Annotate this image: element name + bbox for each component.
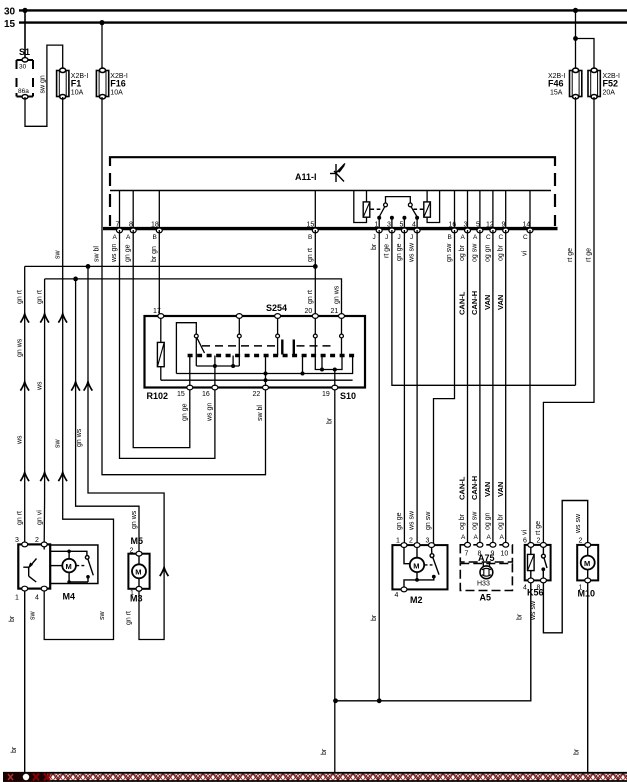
svg-text:30: 30	[4, 7, 16, 18]
wire vi: A11-I pin 14 to K56 pin 6	[529, 230, 531, 545]
svg-text:A: A	[126, 234, 131, 241]
relay coil left in A11-I	[354, 191, 370, 223]
svg-text:2: 2	[409, 538, 413, 545]
svg-text:F52: F52	[603, 79, 619, 89]
svg-text:15A: 15A	[550, 90, 563, 97]
svg-text:gn ge: gn ge	[182, 403, 189, 421]
svg-text:15: 15	[177, 391, 185, 398]
svg-text:sw: sw	[55, 439, 62, 449]
svg-text:M5: M5	[131, 536, 144, 546]
svg-text:M3: M3	[130, 594, 143, 604]
dashed actuator links	[371, 208, 384, 210]
svg-text:F46: F46	[548, 79, 564, 89]
svg-text:10A: 10A	[110, 90, 123, 97]
relay lever left	[379, 207, 384, 217]
wire og gn VAN: A11-I pin 12 to A5 pin 9	[492, 230, 494, 544]
svg-text:ws sw: ws sw	[409, 510, 416, 531]
wire: line2 gn rt horizontal	[45, 279, 342, 315]
internal switch lever left	[176, 323, 204, 374]
svg-text:B: B	[448, 234, 452, 241]
S254 contact plates	[281, 340, 283, 355]
svg-text:21: 21	[331, 308, 339, 315]
svg-text:br: br	[371, 243, 378, 250]
wire rt ge: F52 to K56 pin 2	[543, 97, 594, 545]
wire og br CAN-L: A11-I pin 3 to A5 pin 7	[467, 230, 469, 544]
svg-text:J: J	[398, 234, 401, 241]
motor M5/M3	[128, 551, 149, 591]
node: dot line2/w4	[73, 277, 78, 282]
svg-text:sw bl: sw bl	[257, 405, 264, 421]
svg-text:7: 7	[116, 222, 120, 229]
svg-text:VAN: VAN	[483, 482, 492, 497]
svg-text:gn vi: gn vi	[37, 510, 44, 525]
right bundle labels upper	[371, 242, 593, 541]
svg-text:10A: 10A	[71, 90, 84, 97]
motor assembly M4	[18, 542, 98, 591]
svg-text:2: 2	[35, 537, 39, 544]
svg-text:30: 30	[19, 64, 27, 71]
svg-text:H33: H33	[477, 581, 490, 588]
internal rail C	[176, 356, 352, 374]
wire w3: F1 sw down, over to M4 pin 4	[44, 97, 113, 640]
wire gn sw: A11-I pin 16 to M2 pin 3	[434, 230, 455, 545]
node: dot ground rail / pin19 br	[333, 698, 338, 703]
svg-text:M: M	[135, 568, 141, 577]
svg-text:rt ge: rt ge	[384, 244, 391, 258]
svg-text:M: M	[66, 562, 72, 571]
pin stubs	[120, 191, 531, 229]
svg-text:gn rt: gn rt	[37, 290, 44, 304]
svg-text:gn ws: gn ws	[76, 428, 83, 447]
svg-text:br: br	[371, 614, 378, 621]
wire og br VAN: A11-I pin 9 to A5 pin 10	[505, 230, 507, 544]
splice arrows row 1	[20, 314, 29, 323]
svg-text:S10: S10	[340, 391, 356, 401]
svg-text:gn ge: gn ge	[125, 244, 132, 262]
wire S1 to F1 (sw gn)	[25, 45, 63, 126]
svg-text:19: 19	[322, 391, 330, 398]
internal rail A	[196, 365, 239, 367]
svg-text:M: M	[584, 559, 590, 568]
splice arrows row 2	[20, 382, 29, 391]
svg-text:2: 2	[130, 548, 134, 555]
A11-I pin bar	[103, 227, 558, 230]
svg-text:ws: ws	[37, 381, 44, 391]
fuse F52	[588, 68, 600, 99]
fuse F16	[96, 68, 108, 99]
below-box wires	[334, 390, 336, 776]
A11-I terminal letters	[113, 234, 529, 241]
svg-text:A: A	[487, 534, 492, 541]
svg-text:C: C	[523, 234, 528, 241]
svg-text:og br: og br	[498, 244, 505, 261]
A11-I actuator icon	[330, 164, 345, 183]
bus 15	[19, 21, 627, 23]
pin 2 stub	[43, 545, 45, 550]
svg-text:6: 6	[523, 538, 527, 545]
svg-text:K56: K56	[527, 588, 544, 598]
node: dot line1/pin20 wire	[313, 264, 318, 269]
svg-text:gn ws: gn ws	[131, 510, 138, 529]
svg-text:ws sw: ws sw	[575, 513, 582, 534]
node: junction dot 30/S1	[22, 8, 27, 13]
svg-text:4: 4	[412, 222, 416, 229]
node: dot line1/w5	[86, 264, 91, 269]
S254 pin stub	[277, 318, 279, 334]
svg-text:br: br	[9, 615, 16, 622]
svg-text:A75: A75	[478, 553, 495, 563]
svg-text:B: B	[308, 234, 312, 241]
svg-text:CAN-L: CAN-L	[458, 291, 467, 315]
wire w1: line1 left end down to M4 pin 3	[24, 266, 26, 542]
svg-text:gn rt: gn rt	[126, 611, 133, 625]
relay K56	[525, 543, 551, 583]
pin rings on bar	[117, 228, 534, 233]
svg-text:5: 5	[400, 222, 404, 229]
svg-text:20A: 20A	[603, 90, 616, 97]
node: junction dot 15/F16	[99, 20, 104, 25]
svg-text:C: C	[499, 234, 504, 241]
thick dotted contact bar	[188, 354, 358, 357]
svg-text:1: 1	[375, 222, 379, 229]
svg-text:1: 1	[15, 595, 19, 602]
svg-text:A5: A5	[480, 593, 492, 603]
svg-text:ws gn: ws gn	[207, 403, 214, 422]
wire sw bl: F16 down to S10 pin 22	[102, 97, 266, 475]
svg-text:20: 20	[305, 308, 313, 315]
svg-text:br gn: br gn	[151, 246, 158, 262]
splice arrow w5 lower	[160, 567, 169, 576]
pin 20 stub	[314, 318, 316, 334]
svg-text:ws gn: ws gn	[111, 244, 118, 263]
svg-text:br: br	[574, 748, 581, 755]
fuse F1	[57, 68, 69, 99]
wire br gn: A11-I pin 18 to R102 pin 17	[158, 230, 160, 316]
M4 pin rings	[22, 542, 48, 591]
relay lever right	[411, 207, 417, 217]
svg-text:F16: F16	[110, 79, 126, 89]
svg-text:M: M	[413, 561, 419, 570]
svg-text:og gn: og gn	[485, 512, 492, 530]
switch S1 box	[17, 60, 34, 97]
node: junction dot 30 right	[573, 8, 578, 13]
svg-text:og br: og br	[459, 244, 466, 261]
wire w2: line2 left end down to M4 pin 2	[43, 279, 45, 542]
svg-text:og br: og br	[498, 513, 505, 530]
pin stubs bottom	[189, 356, 191, 387]
svg-text:gn ge: gn ge	[396, 512, 403, 530]
svg-text:VAN: VAN	[483, 295, 492, 310]
svg-text:B: B	[153, 234, 157, 241]
wire w5: line1 dot down to M3 pin 1	[88, 266, 164, 639]
svg-text:3: 3	[387, 222, 391, 229]
svg-text:rt ge: rt ge	[535, 521, 542, 535]
svg-text:17: 17	[153, 308, 161, 315]
svg-text:A: A	[461, 534, 466, 541]
splice arrows row 3	[20, 472, 29, 481]
wire w4: line2 dot down to M5 pin 2	[76, 279, 139, 554]
wire og sw CAN-H: A11-I pin 5 to A5 pin 8	[479, 230, 481, 544]
svg-text:15: 15	[307, 222, 315, 229]
svg-text:og br: og br	[459, 513, 466, 530]
svg-text:ws: ws	[17, 435, 24, 445]
svg-text:4: 4	[35, 595, 39, 602]
wire 15 to F16	[101, 23, 103, 70]
svg-text:A: A	[461, 234, 466, 241]
svg-text:CAN-H: CAN-H	[470, 476, 479, 500]
contact dots + stubs	[377, 216, 381, 220]
M4 motor	[50, 565, 62, 567]
svg-text:J: J	[373, 234, 376, 241]
dashed actuator line	[202, 345, 279, 347]
svg-text:rt ge: rt ge	[567, 248, 574, 262]
svg-text:ws sw: ws sw	[530, 600, 537, 621]
relay coil right in A11-I	[424, 191, 440, 223]
svg-text:J: J	[410, 234, 413, 241]
wire gn rt: A11-I pin 15 to S10 pin 20	[314, 230, 316, 315]
svg-text:gn ge: gn ge	[396, 243, 403, 261]
svg-text:14: 14	[523, 222, 531, 229]
svg-text:vi: vi	[522, 530, 529, 536]
wire 30 to S1	[24, 10, 26, 59]
svg-text:C: C	[486, 234, 491, 241]
wire br: S10 pin 19 to ground	[334, 390, 336, 776]
svg-text:br: br	[327, 417, 334, 424]
svg-text:2: 2	[537, 538, 541, 545]
control unit A5 / A75	[460, 542, 512, 590]
svg-text:A11-I: A11-I	[295, 172, 317, 182]
wire ws gn: A11-I pin 7 to R102 pin 16	[120, 230, 215, 458]
svg-text:vi: vi	[522, 251, 529, 257]
svg-text:9: 9	[502, 222, 506, 229]
svg-text:15: 15	[4, 19, 16, 30]
wire ws sw: K56 pin 8 to M10 pin 2	[543, 501, 587, 633]
svg-text:br: br	[11, 746, 18, 753]
svg-text:gn sw: gn sw	[446, 243, 453, 262]
svg-text:og sw: og sw	[472, 243, 479, 262]
svg-text:CAN-H: CAN-H	[470, 291, 479, 315]
wire br: K56 pin 4 to ground rail	[336, 583, 531, 701]
motor M10	[577, 543, 598, 583]
svg-text:A: A	[500, 534, 505, 541]
wire br: A11-I pin 1 to ground rail	[378, 230, 380, 701]
svg-text:gn rt: gn rt	[17, 511, 24, 525]
svg-text:ws sw: ws sw	[409, 242, 416, 263]
svg-text:CAN-L: CAN-L	[458, 476, 467, 500]
wire: line1 gn rt horizontal	[25, 265, 316, 267]
svg-text:sw: sw	[99, 611, 106, 621]
svg-text:A: A	[473, 234, 478, 241]
svg-text:4: 4	[395, 592, 399, 599]
svg-text:18: 18	[151, 222, 159, 229]
bottom pin rings	[187, 385, 338, 390]
control unit A11-I dashed box	[103, 157, 558, 233]
svg-text:gn rt: gn rt	[307, 290, 314, 304]
unnamed pin stub	[238, 318, 240, 334]
svg-text:10: 10	[501, 551, 509, 558]
svg-text:J: J	[385, 234, 388, 241]
internal rail D	[161, 379, 353, 381]
wire gn ge: A11-I pin 5 to M2 pin 1	[403, 230, 405, 545]
svg-text:M10: M10	[578, 589, 596, 599]
svg-text:7: 7	[465, 551, 469, 558]
relay switch bridge	[371, 197, 424, 228]
svg-text:8: 8	[129, 222, 133, 229]
svg-text:S1: S1	[19, 47, 30, 57]
svg-text:A: A	[474, 534, 479, 541]
svg-text:3: 3	[464, 222, 468, 229]
svg-text:R102: R102	[147, 391, 169, 401]
svg-text:A: A	[113, 234, 118, 241]
svg-text:sw bl: sw bl	[94, 246, 101, 262]
bus 30	[19, 9, 627, 11]
svg-text:gn sw: gn sw	[425, 511, 432, 530]
left bundle wire labels	[17, 244, 341, 529]
svg-text:22: 22	[253, 391, 261, 398]
wire ws sw: A11-I pin 4 to M2 pin 2	[416, 230, 418, 545]
node: dot ground rail / pin1 br	[377, 698, 382, 703]
svg-text:og sw: og sw	[472, 511, 479, 530]
resistor R102	[157, 318, 164, 380]
ground wiring	[333, 501, 588, 777]
ground bus dots	[22, 773, 27, 778]
motor M2	[392, 543, 447, 592]
svg-text:12: 12	[486, 222, 494, 229]
fuse F46	[570, 68, 582, 99]
svg-text:5: 5	[476, 222, 480, 229]
wire rt ge: A11-I pin 3 to F46	[392, 230, 576, 385]
svg-text:3: 3	[426, 538, 430, 545]
svg-text:2: 2	[579, 538, 583, 545]
A11-I pin numbers	[116, 222, 531, 229]
svg-text:sw: sw	[55, 250, 62, 260]
svg-text:86a: 86a	[18, 88, 29, 95]
svg-text:F1: F1	[71, 79, 82, 89]
svg-text:gn ws: gn ws	[17, 338, 24, 357]
A11-I inner line	[110, 190, 551, 192]
wire br: M10 pin 1 to ground bus	[587, 583, 589, 776]
switch unit R102/S10 box	[145, 314, 366, 390]
wire br: M4 pin1 to ground bus	[24, 591, 26, 776]
pin 21 stub	[341, 318, 343, 334]
wire gn ge: A11-I pin 8 to R102 pin 15	[133, 230, 190, 448]
svg-text:gn ws: gn ws	[334, 285, 341, 304]
svg-text:gn rt: gn rt	[307, 248, 314, 262]
svg-text:M4: M4	[63, 592, 76, 602]
svg-text:M2: M2	[410, 595, 423, 605]
svg-text:gn rt: gn rt	[17, 290, 24, 304]
svg-text:og gn: og gn	[485, 244, 492, 262]
svg-text:br: br	[321, 748, 328, 755]
svg-text:16: 16	[449, 222, 457, 229]
top pin rings	[158, 314, 345, 319]
svg-text:S254: S254	[266, 303, 287, 313]
svg-text:VAN: VAN	[496, 482, 505, 497]
right bundle wires	[379, 97, 594, 701]
svg-text:sw: sw	[30, 611, 37, 621]
svg-text:VAN: VAN	[496, 295, 505, 310]
svg-text:sw gn: sw gn	[40, 75, 47, 93]
svg-text:16: 16	[202, 391, 210, 398]
svg-text:1: 1	[396, 538, 400, 545]
svg-text:3: 3	[15, 537, 19, 544]
thermal trip icon in M4	[30, 559, 37, 567]
right mini network	[315, 356, 342, 370]
wire 30 to F46/F52 split	[575, 10, 577, 38]
svg-text:br: br	[517, 613, 524, 620]
svg-text:rt ge: rt ge	[586, 248, 593, 262]
